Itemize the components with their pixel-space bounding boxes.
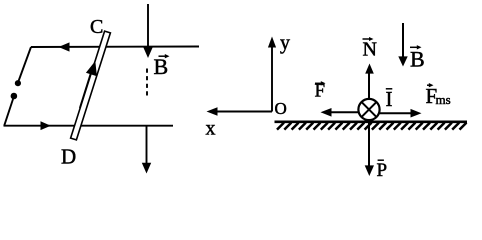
svg-text:I: I xyxy=(386,87,393,111)
svg-text:N: N xyxy=(363,38,377,60)
svg-text:ms: ms xyxy=(436,92,451,107)
rod CD (white slanted bar) xyxy=(71,31,111,140)
force arrow P (down, weight) xyxy=(365,120,374,177)
wire left side upper segment xyxy=(18,47,31,82)
y axis xyxy=(268,37,276,112)
label P with vector bar xyxy=(377,160,388,181)
label y xyxy=(280,32,290,54)
svg-text:O: O xyxy=(275,99,287,118)
ground line xyxy=(275,121,468,124)
svg-text:y: y xyxy=(280,32,290,54)
x axis (pointing left) xyxy=(207,107,273,116)
current arrow on top rail (pointing left) xyxy=(59,42,70,51)
field arrow down (bottom of left figure) xyxy=(142,127,151,174)
label D xyxy=(61,145,76,169)
ground hatching xyxy=(277,123,467,130)
svg-text:C: C xyxy=(90,16,103,38)
field arrow B top (down through top rail) xyxy=(143,4,152,58)
terminal dot lower xyxy=(11,93,18,100)
label O (origin) xyxy=(275,99,287,118)
svg-text:P: P xyxy=(377,160,388,181)
dashed field line below arrow xyxy=(146,69,148,98)
label x xyxy=(206,118,216,140)
wire bottom rail xyxy=(4,125,174,127)
label N with vector bar xyxy=(363,37,377,60)
current arrow on bottom rail (pointing right) xyxy=(41,121,51,130)
label C xyxy=(90,16,103,38)
label I (current) with vector bar xyxy=(386,87,393,111)
field arrow B (down, right figure) xyxy=(398,23,407,67)
label B (left figure) with vector bar xyxy=(154,54,170,79)
current symbol (circle with X, current into page) xyxy=(358,99,379,120)
svg-text:x: x xyxy=(206,118,216,140)
wire left side lower segment xyxy=(4,97,14,126)
current arrow inside rod (pointing up toward C) xyxy=(80,61,97,108)
svg-text:D: D xyxy=(61,145,76,169)
label F_ms with vector bar and subscript xyxy=(426,83,451,108)
label F with vector bar xyxy=(315,80,326,101)
terminal dot upper xyxy=(15,80,21,86)
svg-text:B: B xyxy=(410,47,425,72)
label B (right figure) with vector bar xyxy=(410,45,425,71)
force arrow F (left) xyxy=(321,108,359,117)
force arrow F_ms (right) xyxy=(380,109,422,118)
wire top rail xyxy=(31,46,199,49)
force arrow N (up) xyxy=(365,64,374,99)
